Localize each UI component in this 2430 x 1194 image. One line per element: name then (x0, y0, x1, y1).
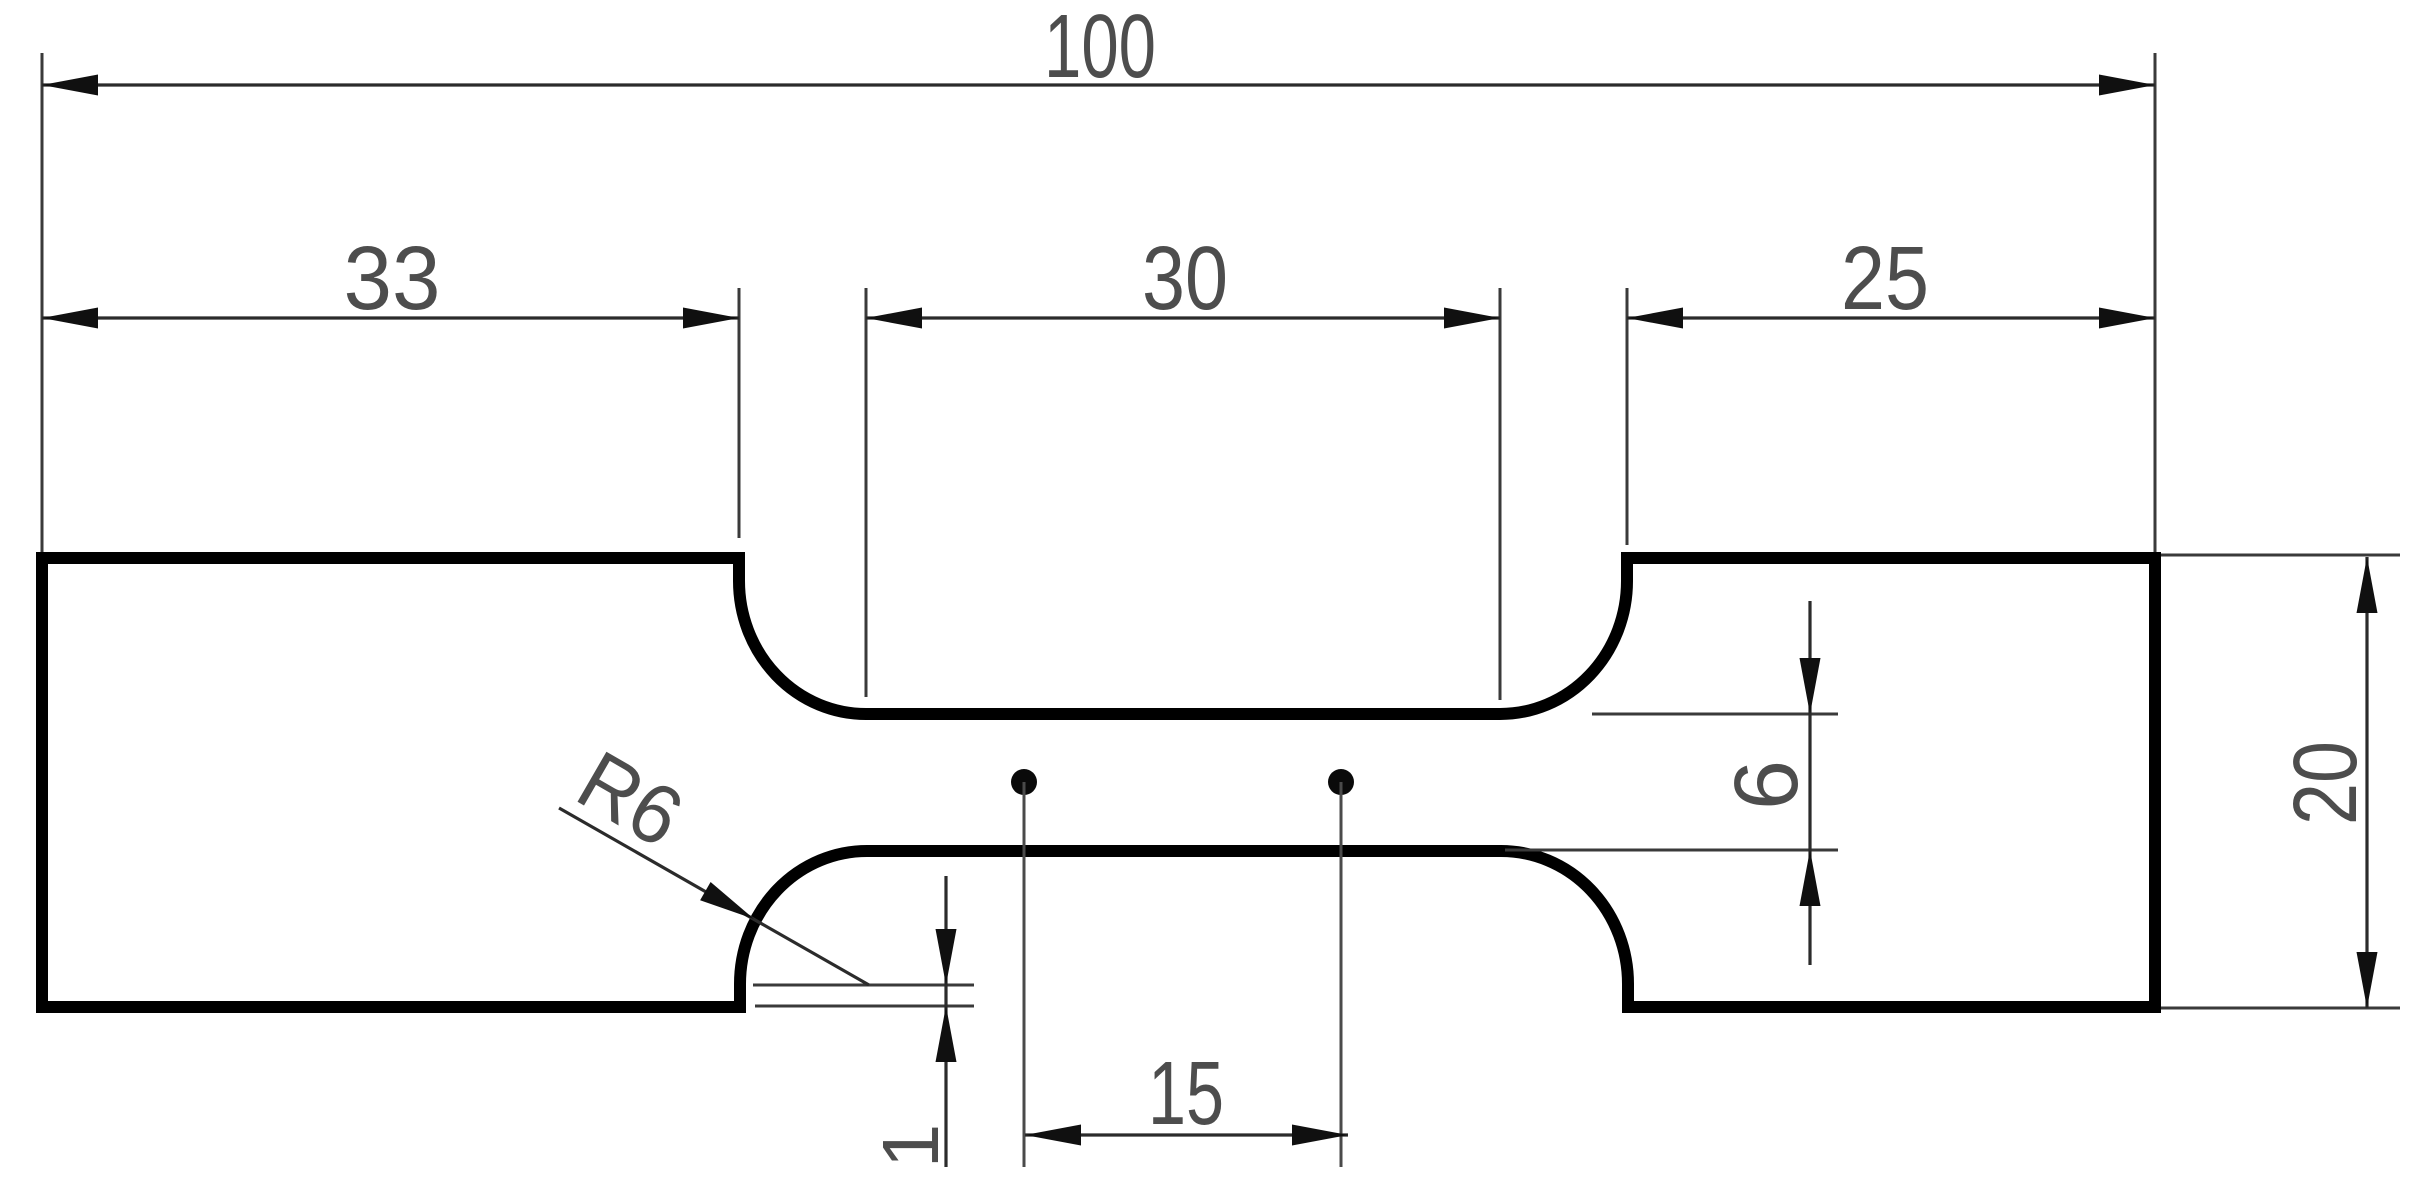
extension line 6 bottom (1505, 849, 1838, 852)
dim line 100 (42, 83, 2155, 86)
extension line dot2 drop (1340, 782, 1343, 1167)
arrow 25 left (1627, 308, 1683, 329)
gauge dot 2 (1328, 769, 1354, 795)
arrow 33 left (42, 308, 98, 329)
gauge dot 1 (1011, 769, 1037, 795)
extension line 1 upper (753, 984, 974, 987)
extension line left (x=42) (41, 53, 44, 552)
svg-text:30: 30 (1142, 229, 1228, 329)
svg-text:25: 25 (1841, 229, 1929, 329)
extension line 6 top (1592, 713, 1838, 716)
svg-text:20: 20 (2276, 741, 2376, 825)
arrow 100 left (42, 75, 98, 96)
arrow 25 right (2099, 308, 2155, 329)
svg-text:33: 33 (344, 229, 441, 329)
specimen outline (42, 558, 2155, 1007)
arrow 20 bottom (2357, 952, 2378, 1008)
extension line 30 left (x=866) (865, 288, 868, 697)
svg-text:15: 15 (1148, 1044, 1224, 1144)
svg-text:R6: R6 (563, 733, 698, 865)
arrow 1 bottom (936, 1006, 957, 1062)
arrow 15 left (1025, 1125, 1081, 1146)
dim line 25 (1627, 316, 2155, 319)
dim line 6 (1808, 601, 1811, 965)
extension line 33 right (x=739) (738, 288, 741, 538)
extension line 20 bottom (2161, 1007, 2400, 1010)
arrow 15 right (1292, 1125, 1348, 1146)
extension line 20 top (2161, 554, 2400, 557)
arrow 6 bottom (1800, 850, 1821, 906)
arrow 33 right (683, 308, 739, 329)
arrow 100 right (2099, 75, 2155, 96)
extension line 30 right (x=1500) (1499, 288, 1502, 700)
dim line 20 (2365, 557, 2368, 1008)
arrow 1 top (936, 929, 957, 985)
extension line 1 lower (755, 1005, 974, 1008)
dim line 33 (42, 316, 739, 319)
arrow 30 left (866, 308, 922, 329)
dim line 15 (1025, 1133, 1348, 1136)
extension line right (x=2155) (2154, 53, 2157, 552)
dim line 30 (866, 316, 1500, 319)
arrow 20 top (2357, 557, 2378, 613)
svg-text:6: 6 (1717, 760, 1817, 810)
arrow R6 (700, 882, 754, 919)
svg-text:1: 1 (866, 1124, 955, 1169)
extension line dot1 drop (1023, 782, 1026, 1167)
leader R6 (559, 808, 869, 985)
extension line 25 left (x=1627) (1626, 288, 1629, 545)
arrow 6 top (1800, 658, 1821, 714)
arrow 30 right (1444, 308, 1500, 329)
svg-text:100: 100 (1044, 0, 1156, 97)
dim line 1 (944, 876, 947, 1167)
